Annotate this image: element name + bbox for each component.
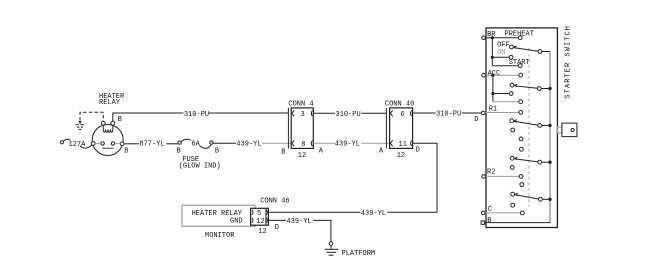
relay top terminals bbox=[101, 121, 114, 125]
monitor box (heater relay gnd) bbox=[182, 205, 255, 226]
contact S5 mid bbox=[511, 203, 515, 207]
contact S4 top bbox=[520, 147, 524, 151]
bus junction 4 bbox=[548, 161, 551, 164]
svg-text:B: B bbox=[487, 217, 491, 225]
svg-text:STARTER SWITCH: STARTER SWITCH bbox=[565, 25, 573, 99]
svg-text:CONN 46: CONN 46 bbox=[260, 198, 289, 206]
svg-text:B: B bbox=[215, 148, 219, 156]
svg-text:3: 3 bbox=[301, 111, 305, 119]
svg-text:B: B bbox=[281, 149, 285, 157]
relay inner contacts bbox=[101, 142, 115, 145]
relay inner stubs bbox=[95, 142, 120, 144]
fuse 6A (glow ind) bbox=[178, 139, 213, 148]
wire START row bbox=[492, 65, 518, 67]
svg-text:12: 12 bbox=[298, 152, 306, 160]
connector CONN 46 bbox=[251, 208, 269, 225]
wire 127A pigtail bbox=[60, 139, 92, 148]
wiper 5 bbox=[511, 192, 550, 201]
svg-text:CONN 4: CONN 4 bbox=[288, 100, 313, 108]
junction BR bbox=[491, 36, 494, 39]
wire ACC mid row bbox=[493, 93, 509, 95]
svg-text:439-YL: 439-YL bbox=[287, 218, 312, 226]
svg-text:B: B bbox=[124, 148, 128, 156]
bus junction 2 bbox=[548, 87, 551, 90]
svg-text:GND: GND bbox=[230, 217, 243, 225]
platform ground bbox=[325, 242, 338, 255]
svg-text:8: 8 bbox=[301, 141, 305, 149]
wire BR row bbox=[485, 37, 518, 39]
svg-text:5: 5 bbox=[257, 210, 261, 218]
svg-text:ON: ON bbox=[497, 49, 505, 57]
svg-text:12: 12 bbox=[258, 228, 266, 236]
svg-text:11: 11 bbox=[399, 141, 407, 149]
contact R1 bbox=[519, 110, 523, 114]
svg-text:RELAY: RELAY bbox=[99, 99, 121, 107]
monitor box text bbox=[192, 210, 243, 225]
junction ON bbox=[491, 56, 494, 59]
svg-text:439-YL: 439-YL bbox=[236, 141, 261, 149]
svg-text:B: B bbox=[177, 148, 181, 156]
svg-text:(GLOW IND): (GLOW IND) bbox=[179, 163, 221, 171]
common bus (gray) bbox=[549, 52, 551, 223]
wire B row to bus bbox=[485, 222, 551, 224]
svg-text:439-YL: 439-YL bbox=[335, 141, 360, 149]
svg-text:877-YL: 877-YL bbox=[139, 141, 164, 149]
wiper 4 bbox=[510, 156, 550, 164]
dashed ground (relay coil ground) bbox=[76, 112, 104, 129]
bus BR to START bbox=[491, 38, 493, 66]
svg-text:127A: 127A bbox=[69, 141, 87, 149]
terminal C bbox=[481, 211, 485, 215]
svg-text:310-PU: 310-PU bbox=[336, 111, 361, 119]
svg-text:6: 6 bbox=[400, 111, 404, 119]
svg-text:12: 12 bbox=[397, 152, 405, 160]
contact C bbox=[520, 211, 524, 215]
relay R1 body bbox=[92, 125, 123, 156]
relay coil bbox=[103, 125, 113, 132]
svg-text:B: B bbox=[118, 116, 122, 124]
contact ACC mid bbox=[509, 92, 513, 96]
contact S4 mid bbox=[510, 166, 514, 170]
wire 310-PU CONN 40 to starter switch bbox=[413, 112, 482, 114]
bus junction 5 bbox=[548, 198, 551, 201]
wire 439-YL fuse to CONN 4 bbox=[213, 142, 236, 144]
svg-text:12: 12 bbox=[256, 218, 264, 226]
key symbol tab bbox=[557, 127, 562, 133]
terminal BR bbox=[482, 36, 486, 40]
terminal ACC bbox=[482, 73, 486, 77]
svg-text:D: D bbox=[275, 224, 279, 232]
svg-text:D: D bbox=[416, 147, 420, 155]
wire 439-YL CONN 46 pin 12 to platform ground bbox=[269, 220, 331, 241]
svg-text:CONN 40: CONN 40 bbox=[385, 100, 414, 108]
svg-text:MONITOR: MONITOR bbox=[205, 232, 235, 240]
wire ON row bbox=[492, 56, 509, 58]
contact S3 low bbox=[519, 137, 523, 141]
contact START bbox=[518, 64, 522, 68]
key symbol circle bbox=[571, 128, 574, 131]
relay armature bar bbox=[102, 147, 114, 149]
svg-text:R2: R2 bbox=[487, 168, 495, 176]
wire 439-YL CONN 4 to CONN 40 (gray) bbox=[313, 142, 389, 144]
svg-text:310-PU: 310-PU bbox=[436, 111, 461, 119]
svg-text:D: D bbox=[474, 116, 478, 124]
heater relay label bbox=[99, 93, 125, 107]
contact S5 top bbox=[520, 183, 524, 187]
wire 310-PU CONN 4 to CONN 40 bbox=[313, 112, 386, 114]
wire 310-PU from relay to CONN 4 bbox=[113, 113, 289, 121]
wiper 3 bbox=[510, 119, 550, 128]
wiper 2 bbox=[510, 83, 550, 90]
wire C row (gray) bbox=[485, 212, 520, 214]
wire ACC row (gray) bbox=[485, 74, 518, 76]
key symbol box bbox=[562, 123, 577, 137]
contact S3 mid bbox=[511, 128, 515, 132]
dashed detent line bbox=[528, 48, 530, 207]
contact BR bbox=[518, 36, 522, 40]
starter switch box bbox=[486, 28, 557, 228]
contact ACC low bbox=[519, 100, 523, 104]
contact R2 bbox=[519, 175, 523, 179]
bus junction 3 bbox=[548, 124, 551, 127]
relay contact terminals bbox=[91, 142, 124, 146]
wire 877-YL relay to fuse bbox=[124, 143, 178, 145]
terminal R2 bbox=[482, 175, 486, 179]
connector CONN 40 bbox=[386, 108, 412, 148]
svg-text:310-PU: 310-PU bbox=[184, 111, 209, 119]
wire 439-YL gray segment into CONN 4 bbox=[262, 142, 291, 144]
svg-text:ACC: ACC bbox=[488, 70, 501, 78]
bus ACC section bbox=[492, 75, 494, 102]
wire 439-YL CONN 40 pin 11 down to monitor branch bbox=[413, 143, 437, 212]
contact ACC bbox=[519, 73, 523, 77]
fuse caption bbox=[179, 156, 221, 170]
wire 439-YL CONN 46 pin 5 to junction bbox=[269, 211, 438, 213]
contact ON bbox=[509, 55, 513, 59]
svg-text:PLATFORM: PLATFORM bbox=[342, 250, 376, 258]
junction ACC bbox=[491, 74, 494, 77]
terminal B (square) bbox=[481, 221, 484, 224]
svg-text:6A: 6A bbox=[191, 140, 200, 148]
wire ACC low row (gray) bbox=[493, 101, 519, 103]
svg-text:439-YL: 439-YL bbox=[361, 210, 386, 218]
terminal at starter switch R1 bbox=[481, 111, 485, 115]
wire R1 row (gray) bbox=[485, 112, 519, 114]
junction ACC mid bbox=[491, 92, 494, 95]
wire R2 row (gray) bbox=[485, 175, 519, 177]
connector CONN 4 bbox=[288, 108, 313, 148]
wiper 1 (OFF) bbox=[510, 45, 550, 53]
